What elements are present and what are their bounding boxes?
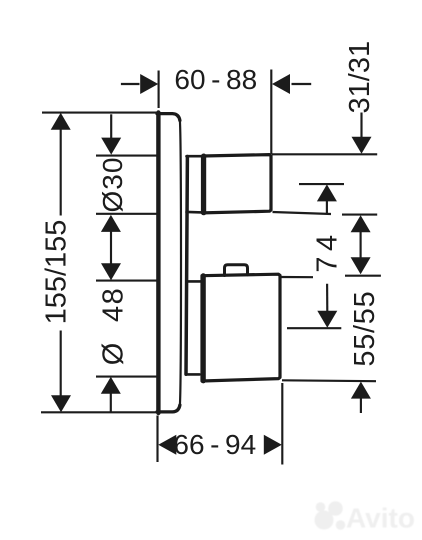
arrowhead 31/31 — [352, 137, 372, 154]
extension line 60-88 left — [158, 71, 160, 109]
svg-text:74: 74 — [311, 229, 343, 272]
neck of handle 2 bottom — [186, 373, 200, 376]
arrowhead Ø48 top — [101, 263, 121, 280]
extension line 66-94 left — [156, 416, 158, 463]
dimension line 60-88 right tail — [292, 83, 312, 85]
dimension line Ø30/Ø48 bottom shaft — [110, 393, 112, 412]
handle 1 (Ø30 knob) — [203, 155, 272, 213]
svg-text:Ø 48: Ø 48 — [98, 287, 130, 365]
arrowhead Ø30 bottom — [101, 215, 121, 232]
arrowhead Ø30 top — [101, 138, 121, 155]
arrowhead 55/55 bottom — [351, 382, 371, 399]
svg-text:Ø30: Ø30 — [97, 157, 128, 213]
svg-text:60 - 88: 60 - 88 — [174, 64, 257, 95]
handle 2 back edge — [201, 276, 206, 381]
neck of handle 1 top — [187, 155, 203, 158]
svg-text:Avito: Avito — [346, 503, 415, 534]
Avito watermark logo circles — [315, 511, 334, 530]
dimension line 155/155 lower shaft — [60, 331, 62, 397]
extension line knob1 top (right, for 31/31) — [272, 153, 377, 155]
dimension line 74 upper shaft — [326, 201, 328, 215]
extension line knob2 top (left, for Ø48) — [96, 280, 157, 282]
extension line knob1 centerline (right, for 74) — [299, 183, 344, 185]
arrowhead 155/155 top — [51, 113, 71, 130]
escutcheon plate (side view) — [157, 114, 180, 121]
svg-text:55/55: 55/55 — [349, 291, 381, 367]
svg-text:31/31: 31/31 — [344, 41, 376, 114]
extension line plate top (left) — [42, 112, 157, 114]
extension line knob1 bottom (right) segment a — [273, 212, 332, 214]
sleeve behind handles — [186, 157, 187, 375]
arrowhead up at knob1 bottom line — [351, 215, 371, 232]
dimension line Ø30/Ø48 middle shaft — [110, 231, 112, 264]
dimension line Ø30/Ø48 top shaft — [110, 114, 112, 138]
plate bottom edge — [157, 405, 180, 412]
dimension line 60-88 left tail — [121, 83, 140, 85]
plate rim edge — [180, 121, 181, 406]
extension line knob2 bottom (left, for Ø48) — [96, 376, 157, 378]
extension line plate bottom (left) — [41, 411, 157, 413]
arrowhead 60-88 left — [140, 74, 158, 94]
arrowhead 66-94 left — [158, 435, 176, 455]
arrowhead 74 top — [317, 184, 337, 201]
dimension line 155/155 upper shaft — [60, 129, 62, 216]
dimension line 55/55 bottom shaft — [360, 398, 362, 413]
arrowhead 74 bottom — [317, 311, 337, 328]
svg-text:66 - 94: 66 - 94 — [173, 429, 256, 460]
arrowhead 155/155 bottom — [51, 395, 71, 412]
dimension line 74 lower shaft — [326, 284, 328, 312]
dimension line between 31/31 and 55/55 shaft — [360, 232, 362, 259]
arrowhead Ø48 bottom — [101, 377, 121, 394]
plate front face edge — [156, 113, 160, 414]
extension line knob2 top (right, for 55/55) segment b — [345, 275, 381, 277]
arrowhead 66-94 right — [264, 435, 282, 455]
handle 1 back edge — [201, 156, 206, 213]
handle 2 (Ø48 knob) — [202, 274, 280, 381]
extension line knob1 bottom (right) segment b — [342, 214, 377, 216]
extension line knob1 top (left, for Ø30) — [96, 155, 157, 157]
extension line knob2 centerline (right, for 74) — [287, 327, 341, 329]
extension line 66-94 right — [281, 383, 283, 465]
arrowhead 60-88 right — [272, 74, 290, 94]
arrowhead down at knob2 top line — [351, 257, 371, 274]
svg-text:155/155: 155/155 — [40, 220, 72, 325]
neck of handle 1 bottom — [187, 211, 203, 214]
safety button tab on handle 2 — [225, 265, 248, 276]
extension line knob1 bottom (left, for Ø30) — [96, 213, 157, 215]
extension line 60-88 right — [270, 70, 272, 155]
extension line knob2 bottom (right, for 55/55) — [282, 379, 376, 382]
dimension line 31/31 shaft — [360, 113, 362, 138]
extension line knob2 top (right, for 55/55) segment a — [282, 276, 314, 278]
neck of handle 2 top — [187, 280, 201, 283]
